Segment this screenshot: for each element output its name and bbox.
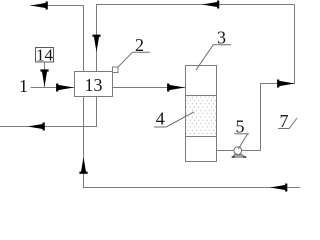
- label 7 with leader: [278, 111, 297, 131]
- arrow right on pump discharge: [277, 80, 295, 88]
- arrow up on bottom return riser: [79, 157, 87, 174]
- wire bottom return into unit 13 bottom: [84, 97, 301, 188]
- arrow left on top recycle line: [202, 1, 219, 9]
- wire top recycle line into unit 13: [97, 5, 295, 72]
- svg-text:1: 1: [19, 76, 28, 96]
- wire top-left outlet from unit 13: [31, 6, 84, 72]
- arrow left on bottom return: [270, 184, 287, 192]
- wire left-mid outlet from unit 13 bottom: [0, 97, 97, 127]
- packing bed 4 (stippled): [186, 96, 216, 136]
- wire feed 1 into unit 13: [31, 87, 75, 89]
- label 3 with leader: [196, 28, 231, 71]
- label 4 with leader: [154, 109, 194, 129]
- wire column bottoms to pump: [217, 150, 235, 152]
- wire right recycle riser: [294, 5, 296, 84]
- arrow left on left-mid outlet: [28, 123, 45, 131]
- column 3 vessel: [186, 66, 217, 162]
- arrow right into column: [167, 84, 185, 92]
- wire unit 13 to column 3: [113, 87, 186, 89]
- pump 5: [232, 147, 246, 158]
- arrow down into unit 13: [93, 35, 101, 52]
- arrow left on top-left outlet: [31, 2, 48, 10]
- svg-text:13: 13: [85, 75, 103, 95]
- wire pump discharge to riser: [242, 84, 295, 151]
- svg-text:4: 4: [156, 109, 165, 129]
- nozzle 2 on unit 13: [113, 67, 119, 73]
- svg-text:14: 14: [36, 45, 54, 64]
- arrow down on dosing line: [40, 69, 48, 86]
- label 14 box: [36, 48, 54, 63]
- label 5 with leader: [234, 116, 249, 149]
- unit 13: [75, 72, 113, 97]
- arrow right into unit 13: [56, 84, 74, 92]
- wire 14 dosing line: [44, 62, 46, 87]
- label 2 with leader: [118, 35, 150, 67]
